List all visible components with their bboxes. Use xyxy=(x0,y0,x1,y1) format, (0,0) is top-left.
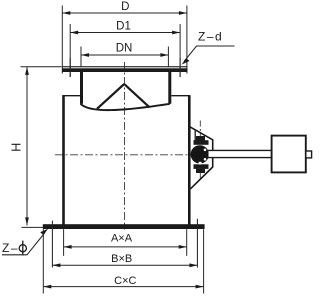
dimension H xyxy=(21,67,62,228)
dimension AxA xyxy=(64,229,187,256)
neck wall right (seat tube) xyxy=(168,72,171,104)
lever arm xyxy=(209,151,272,157)
body wall right xyxy=(188,95,191,224)
flap disc xyxy=(81,104,170,110)
bearing block upper xyxy=(194,130,196,142)
shaft stub xyxy=(306,151,312,158)
bolt hole mark left (bottom flange) + B extension xyxy=(51,221,53,268)
dimension BxB xyxy=(52,264,197,266)
svg-text:B×B: B×B xyxy=(111,253,132,265)
svg-text:H: H xyxy=(10,143,24,152)
svg-text:Z–d: Z–d xyxy=(198,30,223,44)
dimension CxC xyxy=(43,229,203,293)
counterweight xyxy=(272,136,306,173)
svg-text:DN: DN xyxy=(116,43,133,55)
hub xyxy=(191,145,209,163)
centerline vertical main axis xyxy=(124,62,126,230)
top flange xyxy=(62,66,187,67)
dimension D1 xyxy=(70,24,180,77)
neck wall left (seat tube) xyxy=(80,72,83,104)
body shoulder right xyxy=(171,95,190,97)
svg-text:D: D xyxy=(121,1,129,13)
bolt hole mark left (top flange) xyxy=(69,58,71,77)
body shoulder left xyxy=(63,95,81,97)
dimension D xyxy=(62,6,187,74)
bolt hole mark right (bottom flange) + B extension xyxy=(196,219,198,268)
bearing block lower xyxy=(194,164,209,169)
dimension DN xyxy=(81,47,168,67)
body wall left xyxy=(62,95,65,224)
svg-text:A×A: A×A xyxy=(111,232,133,244)
centerline horizontal shaft axis xyxy=(55,154,196,156)
svg-text:Z–: Z– xyxy=(2,241,19,255)
bracket plate xyxy=(189,126,213,189)
bolt hole mark right (top flange) xyxy=(179,58,181,77)
bottom flange xyxy=(43,224,205,229)
svg-text:D1: D1 xyxy=(116,21,131,33)
cone deflector xyxy=(97,84,150,109)
centerline hub vertical xyxy=(199,121,201,179)
svg-text:C×C: C×C xyxy=(114,275,136,287)
